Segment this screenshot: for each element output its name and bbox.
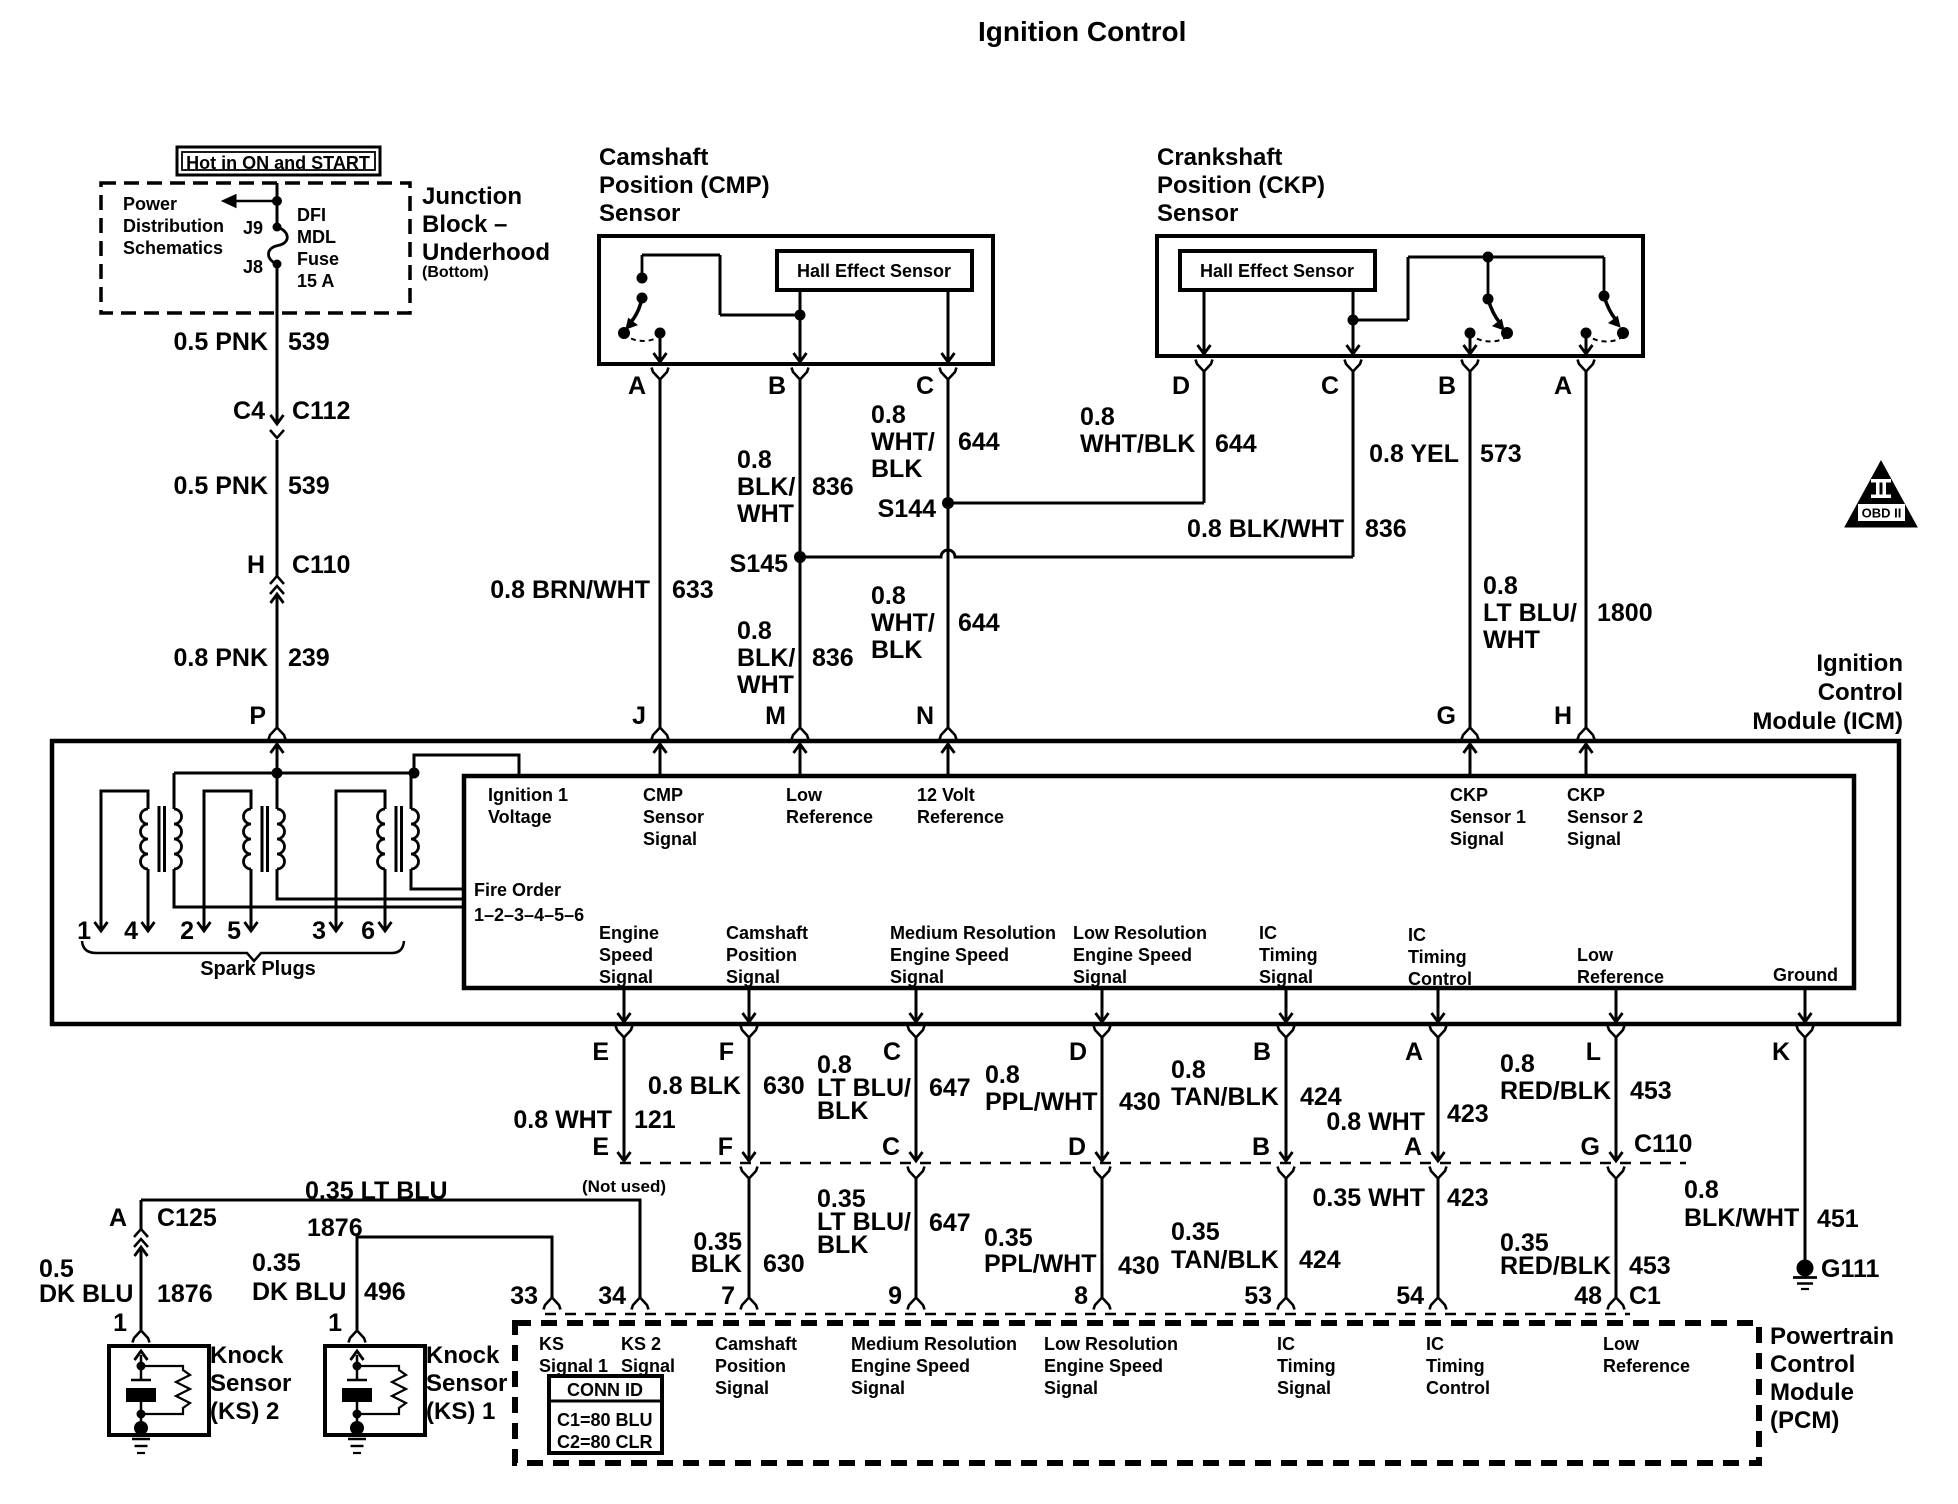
svg-text:Engine Speed: Engine Speed <box>1044 1356 1163 1376</box>
svg-text:0.8: 0.8 <box>1483 572 1518 600</box>
svg-text:0.5: 0.5 <box>39 1255 74 1283</box>
CMP reluctor switch <box>641 255 644 278</box>
svg-text:C1: C1 <box>1629 1282 1661 1310</box>
wire: CMP A to ICM pin J (0.8 BRN/WHT 633) <box>659 379 662 728</box>
svg-text:IC: IC <box>1426 1334 1444 1354</box>
node: junction dot at feed <box>272 196 282 206</box>
svg-text:D: D <box>1172 372 1190 400</box>
svg-text:D: D <box>1069 1038 1087 1066</box>
svg-text:Hall Effect Sensor: Hall Effect Sensor <box>1200 261 1354 281</box>
svg-text:54: 54 <box>1396 1282 1424 1310</box>
svg-text:C4: C4 <box>233 397 265 425</box>
svg-text:0.5 PNK: 0.5 PNK <box>174 472 268 500</box>
ICM pin A exit <box>1437 988 1440 1022</box>
svg-text:Control: Control <box>1408 969 1472 989</box>
svg-text:Control: Control <box>1818 679 1903 706</box>
svg-text:C: C <box>1321 372 1339 400</box>
svg-text:0.8 BRN/WHT: 0.8 BRN/WHT <box>490 576 650 604</box>
svg-text:TAN/BLK: TAN/BLK <box>1171 1246 1279 1274</box>
wire: ICM E 0.8 WHT 121 (not used) <box>623 1037 626 1161</box>
wire: S144 to CKP D pin <box>948 502 1204 505</box>
svg-text:C1=80 BLU: C1=80 BLU <box>557 1410 653 1430</box>
connector C110 dashed line <box>620 1162 1686 1165</box>
svg-text:0.35 WHT: 0.35 WHT <box>1312 1184 1425 1212</box>
svg-text:836: 836 <box>812 473 854 501</box>
svg-text:Sensor 2: Sensor 2 <box>1567 807 1643 827</box>
svg-text:A: A <box>628 372 646 400</box>
svg-text:BLK: BLK <box>817 1097 868 1125</box>
svg-text:Position: Position <box>715 1356 786 1376</box>
svg-text:PPL/WHT: PPL/WHT <box>984 1250 1097 1278</box>
svg-text:B: B <box>768 372 786 400</box>
svg-text:RED/BLK: RED/BLK <box>1500 1077 1611 1105</box>
svg-text:C: C <box>883 1038 901 1066</box>
svg-text:Signal: Signal <box>726 967 780 987</box>
svg-text:Timing: Timing <box>1259 945 1318 965</box>
svg-text:Signal: Signal <box>1450 829 1504 849</box>
svg-text:573: 573 <box>1480 440 1522 468</box>
junction block dashed box <box>101 183 410 313</box>
knock sensor KS2 resistor <box>141 1366 190 1414</box>
svg-text:451: 451 <box>1817 1205 1859 1233</box>
svg-text:0.8: 0.8 <box>871 582 906 610</box>
svg-text:BLK/: BLK/ <box>737 644 795 672</box>
connector C110 crossing C <box>915 1037 918 1161</box>
svg-text:0.8 BLK/WHT: 0.8 BLK/WHT <box>1187 515 1344 543</box>
ICM pin B exit <box>1285 988 1288 1022</box>
ICM pin D exit <box>1101 988 1104 1022</box>
svg-text:0.8: 0.8 <box>1080 403 1115 431</box>
svg-text:5: 5 <box>227 917 241 945</box>
svg-text:Signal: Signal <box>890 967 944 987</box>
svg-text:Engine Speed: Engine Speed <box>1073 945 1192 965</box>
ground G111 <box>1797 1260 1814 1277</box>
svg-text:C2=80 CLR: C2=80 CLR <box>557 1432 653 1452</box>
svg-text:BLK: BLK <box>871 636 922 664</box>
wire: 0.5 DK BLU 1876 (C125 to KS2) <box>140 1247 143 1330</box>
wire: coil 3 primary feed <box>410 773 413 809</box>
wire: coil 3 primary return <box>411 869 464 889</box>
hall effect sensor box (CMP) <box>777 251 972 290</box>
svg-text:(KS) 1: (KS) 1 <box>426 1398 495 1425</box>
svg-text:Timing: Timing <box>1426 1356 1485 1376</box>
svg-text:K: K <box>1772 1038 1790 1066</box>
svg-text:424: 424 <box>1300 1083 1342 1111</box>
ICM pin K exit <box>1804 988 1807 1022</box>
svg-text:0.35: 0.35 <box>1171 1218 1220 1246</box>
PCM dashed box <box>515 1323 1759 1463</box>
svg-text:1–2–3–4–5–6: 1–2–3–4–5–6 <box>474 905 584 925</box>
svg-text:CKP: CKP <box>1567 785 1605 805</box>
svg-text:E: E <box>592 1133 609 1161</box>
svg-text:BLK: BLK <box>691 1250 742 1278</box>
svg-text:424: 424 <box>1299 1246 1341 1274</box>
svg-text:3: 3 <box>312 917 326 945</box>
CMP sensor box <box>599 236 993 364</box>
svg-text:Sensor: Sensor <box>1157 200 1238 227</box>
ICM inner box <box>464 776 1854 988</box>
svg-text:F: F <box>719 1038 734 1066</box>
svg-text:Reference: Reference <box>917 807 1004 827</box>
wire: coil 1 secondary to spark plug 1 <box>101 791 148 931</box>
svg-text:A: A <box>1405 1038 1423 1066</box>
svg-text:836: 836 <box>812 644 854 672</box>
wire: CMP B pin down <box>799 315 802 362</box>
svg-text:Ignition 1: Ignition 1 <box>488 785 568 805</box>
svg-text:S145: S145 <box>730 550 788 578</box>
svg-text:239: 239 <box>288 644 330 672</box>
svg-text:BLK/WHT: BLK/WHT <box>1684 1204 1799 1232</box>
node: CMP internal junction <box>795 310 806 321</box>
svg-text:Signal: Signal <box>643 829 697 849</box>
svg-text:Low: Low <box>1603 1334 1640 1354</box>
svg-text:430: 430 <box>1118 1252 1160 1280</box>
CKP reluctor switch B <box>1487 257 1490 299</box>
svg-text:Signal: Signal <box>851 1378 905 1398</box>
svg-text:A: A <box>1554 372 1572 400</box>
svg-text:Sensor: Sensor <box>426 1370 507 1397</box>
connector C110 crossing F <box>748 1037 751 1161</box>
svg-text:Camshaft: Camshaft <box>726 923 808 943</box>
svg-text:A: A <box>1404 1133 1422 1161</box>
svg-text:S144: S144 <box>878 495 936 523</box>
svg-text:IC: IC <box>1408 925 1426 945</box>
CONN ID table <box>549 1376 662 1453</box>
svg-text:0.8: 0.8 <box>1684 1176 1719 1204</box>
wire: ignition 1 voltage bus <box>174 772 414 775</box>
svg-text:0.8 BLK: 0.8 BLK <box>648 1072 741 1100</box>
svg-text:Sensor: Sensor <box>643 807 704 827</box>
svg-text:D: D <box>1068 1133 1086 1161</box>
knock sensor KS1 resistor <box>357 1366 406 1414</box>
knock sensor KS1 case ground <box>350 1421 364 1435</box>
wire: coil 1 secondary to spark plug 4 <box>147 869 150 931</box>
wire: 0.5 PNK 539 fuse to C112 <box>276 264 279 424</box>
svg-text:J: J <box>632 702 646 730</box>
svg-text:8: 8 <box>1074 1282 1088 1310</box>
svg-text:836: 836 <box>1365 515 1407 543</box>
svg-text:LT BLU/: LT BLU/ <box>1483 599 1577 627</box>
svg-text:Spark Plugs: Spark Plugs <box>200 958 316 980</box>
svg-text:C110: C110 <box>1634 1130 1692 1158</box>
svg-text:Underhood: Underhood <box>422 239 550 266</box>
svg-text:453: 453 <box>1629 1252 1671 1280</box>
svg-text:IC: IC <box>1259 923 1277 943</box>
svg-text:4: 4 <box>124 917 138 945</box>
wire: CKP D pin from hall <box>1203 290 1206 354</box>
svg-text:IC: IC <box>1277 1334 1295 1354</box>
svg-text:DK BLU: DK BLU <box>252 1278 346 1306</box>
wire: ICM K to ground G111 (0.8 BLK/WHT 451) <box>1804 1037 1807 1261</box>
svg-text:Low: Low <box>786 785 823 805</box>
ICM pin L exit <box>1615 988 1618 1022</box>
knock sensor KS2 piezo element <box>140 1355 143 1365</box>
svg-text:E: E <box>592 1038 609 1066</box>
svg-text:WHT: WHT <box>737 671 794 699</box>
svg-text:A: A <box>109 1204 127 1232</box>
svg-text:Low: Low <box>1577 945 1614 965</box>
svg-text:7: 7 <box>721 1282 735 1310</box>
svg-text:0.8: 0.8 <box>737 446 772 474</box>
wire: CMP internal hall to B pin <box>799 290 802 315</box>
wire: 0.5 PNK 539 C112 to C110 <box>276 440 279 576</box>
svg-text:Fuse: Fuse <box>297 249 339 269</box>
wire: CKP C pin from hall with branch <box>1352 290 1355 354</box>
svg-text:Timing: Timing <box>1277 1356 1336 1376</box>
svg-text:MDL: MDL <box>297 227 336 247</box>
wire: arrow to power distribution schematics <box>236 200 277 203</box>
svg-text:Signal: Signal <box>1044 1378 1098 1398</box>
wire: coil 1 primary feed <box>173 773 176 809</box>
wire: feed into junction block top <box>276 183 279 227</box>
svg-text:0.35: 0.35 <box>252 1249 301 1277</box>
svg-text:0.8: 0.8 <box>985 1061 1020 1089</box>
svg-text:633: 633 <box>672 576 714 604</box>
svg-text:M: M <box>765 702 786 730</box>
svg-text:Sensor: Sensor <box>599 200 680 227</box>
spark plugs brace <box>82 941 404 961</box>
svg-text:L: L <box>1586 1038 1601 1066</box>
svg-text:1: 1 <box>328 1309 342 1337</box>
svg-text:WHT: WHT <box>1483 626 1540 654</box>
svg-text:Engine Speed: Engine Speed <box>890 945 1009 965</box>
svg-text:Position: Position <box>726 945 797 965</box>
svg-text:0.8 WHT: 0.8 WHT <box>513 1106 612 1134</box>
fuse DFI MDL 15A (J9-J8) <box>273 223 282 232</box>
svg-text:Reference: Reference <box>786 807 873 827</box>
svg-text:1800: 1800 <box>1597 599 1653 627</box>
svg-text:Engine Speed: Engine Speed <box>851 1356 970 1376</box>
wire: CMP C pin from hall <box>947 290 950 362</box>
svg-text:Module: Module <box>1770 1379 1854 1406</box>
svg-text:C: C <box>916 372 934 400</box>
svg-text:9: 9 <box>888 1282 902 1310</box>
svg-text:630: 630 <box>763 1250 805 1278</box>
wire: coil 2 secondary to spark plug 2 <box>204 791 251 931</box>
svg-text:(PCM): (PCM) <box>1770 1407 1839 1434</box>
wire: coil 2 primary return <box>277 869 464 899</box>
svg-text:Ignition Control: Ignition Control <box>978 16 1186 47</box>
connector C1 dashed line <box>545 1313 1630 1316</box>
svg-text:Schematics: Schematics <box>123 238 223 258</box>
svg-text:0.35 LT BLU: 0.35 LT BLU <box>305 1177 448 1205</box>
svg-text:0.35: 0.35 <box>984 1224 1033 1252</box>
svg-text:Reference: Reference <box>1577 967 1664 987</box>
svg-text:B: B <box>1252 1133 1270 1161</box>
svg-text:121: 121 <box>634 1106 676 1134</box>
svg-text:Signal 1: Signal 1 <box>539 1356 608 1376</box>
wire: CKP A to ICM pin H (0.8 LT BLU/WHT 1800) <box>1585 371 1588 728</box>
svg-text:Knock: Knock <box>426 1342 500 1369</box>
svg-text:Signal: Signal <box>599 967 653 987</box>
svg-text:Hot in ON and START: Hot in ON and START <box>186 153 370 173</box>
wire: CMP C to S144 (0.8 WHT/BLK 644) <box>947 379 950 503</box>
svg-text:0.8 PNK: 0.8 PNK <box>174 644 268 672</box>
svg-text:33: 33 <box>510 1282 538 1310</box>
svg-text:2: 2 <box>180 917 194 945</box>
svg-text:Module (ICM): Module (ICM) <box>1752 708 1903 735</box>
svg-text:15 A: 15 A <box>297 271 334 291</box>
wire: CKP B to ICM pin G (0.8 YEL 573) <box>1469 371 1472 728</box>
wire: CKP D to S144 line (0.8 WHT/BLK 644) <box>1203 371 1206 503</box>
svg-text:1: 1 <box>113 1309 127 1337</box>
wire: coil 2 primary feed <box>276 773 279 809</box>
svg-text:Signal: Signal <box>1567 829 1621 849</box>
svg-text:Position (CKP): Position (CKP) <box>1157 172 1325 199</box>
wire: CKP C to S145 line (0.8 BLK/WHT 836) <box>1352 371 1355 557</box>
svg-text:0.8: 0.8 <box>1500 1050 1535 1078</box>
svg-text:C110: C110 <box>292 551 350 579</box>
svg-text:Ground: Ground <box>1773 965 1838 985</box>
svg-text:539: 539 <box>288 328 330 356</box>
svg-text:644: 644 <box>958 428 1000 456</box>
hall effect sensor box (CKP) <box>1180 251 1375 290</box>
svg-text:WHT/: WHT/ <box>871 609 935 637</box>
svg-text:12 Volt: 12 Volt <box>917 785 975 805</box>
svg-text:Medium Resolution: Medium Resolution <box>851 1334 1017 1354</box>
svg-text:647: 647 <box>929 1209 971 1237</box>
connector C110 crossing D <box>1101 1037 1104 1161</box>
svg-text:Signal: Signal <box>621 1356 675 1376</box>
CKP reluctor switch A <box>1603 257 1606 296</box>
svg-text:DK BLU: DK BLU <box>39 1280 133 1308</box>
svg-text:1876: 1876 <box>157 1280 213 1308</box>
svg-text:DFI: DFI <box>297 205 326 225</box>
svg-text:J8: J8 <box>243 257 263 277</box>
knock sensor KS2 case ground <box>134 1421 148 1435</box>
label box "Hot in ON and START" <box>177 147 380 175</box>
wire: CMP A pin down <box>659 333 662 362</box>
svg-text:(Not used): (Not used) <box>582 1177 666 1196</box>
svg-text:Timing: Timing <box>1408 947 1467 967</box>
svg-text:1: 1 <box>77 917 91 945</box>
svg-text:TAN/BLK: TAN/BLK <box>1171 1083 1279 1111</box>
svg-text:CKP: CKP <box>1450 785 1488 805</box>
svg-text:Signal: Signal <box>715 1378 769 1398</box>
svg-text:(Bottom): (Bottom) <box>422 264 489 281</box>
svg-text:BLK/: BLK/ <box>737 473 795 501</box>
svg-text:Medium Resolution: Medium Resolution <box>890 923 1056 943</box>
OBD II symbol <box>1845 461 1917 527</box>
knock sensor KS1 piezo element <box>356 1355 359 1365</box>
svg-text:C125: C125 <box>157 1204 217 1232</box>
svg-text:Knock: Knock <box>210 1342 284 1369</box>
svg-text:BLK: BLK <box>871 455 922 483</box>
svg-text:Position (CMP): Position (CMP) <box>599 172 770 199</box>
svg-text:CONN ID: CONN ID <box>567 1380 643 1400</box>
svg-text:C112: C112 <box>292 397 350 425</box>
connector C110 crossing A <box>1437 1037 1440 1161</box>
svg-text:Crankshaft: Crankshaft <box>1157 144 1282 171</box>
svg-text:KS: KS <box>539 1334 564 1354</box>
connector C110 crossing G <box>1615 1037 1618 1161</box>
wire: CKP internal top bus <box>1408 256 1604 259</box>
svg-text:0.8: 0.8 <box>871 401 906 429</box>
connector C110 crossing B <box>1285 1037 1288 1161</box>
svg-text:WHT: WHT <box>737 500 794 528</box>
svg-text:1876: 1876 <box>307 1214 363 1242</box>
svg-text:0.8: 0.8 <box>737 617 772 645</box>
svg-text:Camshaft: Camshaft <box>715 1334 797 1354</box>
svg-text:Speed: Speed <box>599 945 653 965</box>
svg-text:Voltage: Voltage <box>488 807 552 827</box>
svg-text:RED/BLK: RED/BLK <box>1500 1252 1611 1280</box>
svg-text:G111: G111 <box>1821 1255 1879 1283</box>
svg-text:Signal: Signal <box>1073 967 1127 987</box>
svg-text:430: 430 <box>1119 1088 1161 1116</box>
svg-text:H: H <box>1554 702 1572 730</box>
svg-text:N: N <box>916 702 934 730</box>
ignition coil 3 <box>378 809 385 869</box>
svg-text:Engine: Engine <box>599 923 659 943</box>
svg-text:Camshaft: Camshaft <box>599 144 708 171</box>
ignition coil 1 <box>141 809 149 869</box>
svg-text:34: 34 <box>598 1282 626 1310</box>
wire: CMP B to ICM pin M (0.8 BLK/WHT 836) <box>799 379 802 728</box>
svg-text:Junction: Junction <box>422 183 522 210</box>
svg-text:F: F <box>718 1133 733 1161</box>
svg-text:G: G <box>1437 702 1456 730</box>
svg-text:(KS) 2: (KS) 2 <box>210 1398 279 1425</box>
svg-text:6: 6 <box>361 917 375 945</box>
wire: 0.35 DK BLU 496 (KS1 to PCM 33) <box>357 1237 552 1330</box>
ICM pin C exit <box>915 988 918 1022</box>
wire: 0.8 PNK 239 C110 to ICM pin P <box>276 594 279 728</box>
wire: S144 down to ICM pin N with hop over S145 line <box>947 503 950 728</box>
ICM pin F exit <box>748 988 751 1022</box>
svg-text:647: 647 <box>929 1074 971 1102</box>
svg-text:Sensor: Sensor <box>210 1370 291 1397</box>
svg-text:Signal: Signal <box>1277 1378 1331 1398</box>
svg-text:CMP: CMP <box>643 785 683 805</box>
svg-text:644: 644 <box>958 609 1000 637</box>
svg-text:B: B <box>1438 372 1456 400</box>
svg-text:OBD II: OBD II <box>1862 506 1902 521</box>
knock sensor KS1 box <box>325 1346 425 1435</box>
svg-text:630: 630 <box>763 1072 805 1100</box>
svg-text:539: 539 <box>288 472 330 500</box>
wire: coil 2 secondary to spark plug 5 <box>250 869 253 931</box>
svg-text:496: 496 <box>364 1278 406 1306</box>
svg-text:BLK: BLK <box>817 1231 868 1259</box>
svg-text:Power: Power <box>123 194 177 214</box>
svg-text:Hall Effect Sensor: Hall Effect Sensor <box>797 261 951 281</box>
svg-text:423: 423 <box>1447 1184 1489 1212</box>
svg-text:PPL/WHT: PPL/WHT <box>985 1088 1098 1116</box>
svg-text:0.5 PNK: 0.5 PNK <box>174 328 268 356</box>
wire: coil 3 secondary to spark plug 3 <box>336 791 385 931</box>
wire: bus to Ignition 1 Voltage pin <box>414 755 519 776</box>
svg-text:453: 453 <box>1630 1077 1672 1105</box>
svg-text:Low Resolution: Low Resolution <box>1073 923 1207 943</box>
svg-text:P: P <box>249 702 266 730</box>
svg-text:Sensor 1: Sensor 1 <box>1450 807 1526 827</box>
svg-text:Signal: Signal <box>1259 967 1313 987</box>
svg-text:WHT/BLK: WHT/BLK <box>1080 430 1195 458</box>
svg-text:0.8 YEL: 0.8 YEL <box>1369 440 1459 468</box>
svg-text:423: 423 <box>1447 1100 1489 1128</box>
wire: coil 1 primary return <box>174 869 464 907</box>
svg-text:Control: Control <box>1426 1378 1490 1398</box>
svg-text:J9: J9 <box>243 218 263 238</box>
wire: coil 3 secondary to spark plug 6 <box>384 869 387 931</box>
svg-text:Block –: Block – <box>422 211 507 238</box>
svg-text:WHT/: WHT/ <box>871 428 935 456</box>
wire: S145 horizontal to CKP C wire (hop at N wire) <box>800 550 1353 557</box>
svg-text:0.8 WHT: 0.8 WHT <box>1326 1108 1425 1136</box>
svg-text:Distribution: Distribution <box>123 216 224 236</box>
svg-text:KS 2: KS 2 <box>621 1334 661 1354</box>
